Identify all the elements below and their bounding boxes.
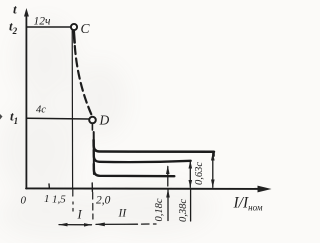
dim cap 0.63s end hook: [213, 152, 215, 156]
dim extension 0.18s below axis: [167, 190, 169, 221]
top curve 0.63s: [94, 140, 214, 152]
t1 level line: [27, 117, 89, 120]
region II arrow: [96, 223, 138, 225]
scan artifact left edge: [0, 114, 3, 120]
svg-text:0,63c: 0,63c: [194, 162, 205, 185]
region I left arrowhead: [59, 223, 68, 227]
svg-text:0,18c: 0,18c: [154, 198, 165, 221]
y-axis t: [25, 12, 27, 189]
dim arrow 0.18s below axis up: [166, 189, 170, 198]
dim extension 0.38s below axis: [190, 189, 192, 221]
svg-text:12ч: 12ч: [34, 16, 52, 28]
gridline 2.0: dash below D: [91, 125, 93, 131]
point D: [89, 117, 96, 124]
svg-text:0,38c: 0,38c: [178, 199, 189, 222]
dashed curve C to D first stroke: [72, 31, 76, 43]
t2 level line: [27, 26, 71, 28]
gridline at 1.5: [71, 30, 73, 188]
dim arrow 0.18s up: [166, 165, 170, 174]
gridline 2.0 below axis (dashed): [92, 193, 94, 220]
svg-text:t: t: [13, 2, 17, 17]
scan paper mottling: [0, 18, 212, 239]
svg-text:0: 0: [21, 195, 27, 207]
svg-text:1: 1: [44, 193, 50, 205]
point C: [71, 24, 77, 30]
svg-text:C: C: [81, 21, 91, 36]
svg-text:2,0: 2,0: [96, 195, 111, 207]
middle curve 0.38s: [94, 150, 191, 162]
svg-text:D: D: [99, 113, 110, 128]
dashed curve C to D: [75, 46, 92, 114]
x-axis arrowhead: [258, 186, 272, 193]
y-axis arrowhead: [24, 8, 29, 17]
dim arrow 0.38s up: [189, 161, 193, 169]
region I right arrowhead: [84, 223, 92, 227]
dim line 0.38s: [189, 162, 191, 188]
gridline 1.5 below axis (dashed): [72, 190, 74, 211]
dim arrow 0.63s up: [211, 152, 215, 160]
tick at 2.0: [91, 183, 93, 192]
tick at 1: [48, 184, 50, 189]
region I dimension line: [59, 224, 92, 226]
region II dash-dot tail: [142, 223, 157, 225]
dim line 0.63s: [212, 153, 214, 188]
x-axis I/Inom: [26, 187, 260, 190]
dim arrow 0.38s down: [189, 180, 193, 188]
region II arrowhead: [95, 223, 105, 227]
dim line 0.18s: [167, 167, 169, 187]
svg-text:4c: 4c: [36, 105, 46, 116]
svg-text:II: II: [118, 208, 128, 220]
svg-text:I: I: [77, 208, 83, 222]
svg-text:1,5: 1,5: [52, 194, 66, 206]
dim arrow 0.63s down: [211, 180, 215, 188]
bottom curve 0.18s: [94, 164, 175, 176]
curves steep drop: [93, 132, 95, 174]
